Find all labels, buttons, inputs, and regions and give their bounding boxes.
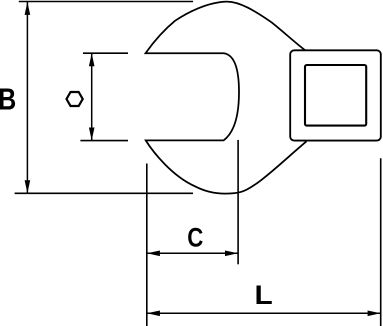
dimension L arrow left	[147, 311, 160, 317]
crowfoot wrench body outline	[146, 2, 307, 194]
dimension C/L left extension line	[146, 164, 148, 326]
svg-text:C: C	[187, 224, 203, 253]
square drive boss (outer)	[290, 50, 381, 140]
dimension C arrow right	[225, 251, 238, 257]
dimension L arrow right	[368, 311, 381, 317]
hex opening arrow down	[89, 128, 95, 141]
dimension B line	[26, 2, 28, 193]
dimension B arrow down	[25, 180, 31, 193]
hexagon symbol (hex size label)	[67, 92, 83, 106]
hex opening top extension line	[83, 52, 128, 54]
svg-text:L: L	[255, 279, 273, 309]
svg-text:B: B	[0, 82, 16, 116]
square drive hole (inner)	[305, 65, 366, 126]
dimension L right extension line	[380, 158, 382, 326]
hex opening arrow up	[89, 53, 95, 66]
dimension B bottom extension line	[15, 192, 193, 194]
hex opening bottom extension line	[80, 140, 128, 142]
dimension C line	[147, 252, 238, 254]
dimension B top extension line	[19, 1, 193, 3]
dimension L line	[147, 312, 381, 314]
dimension C arrow left	[147, 251, 160, 257]
dimension C right extension line	[237, 140, 239, 264]
dimension B arrow up	[25, 2, 31, 15]
hex opening dimension line	[91, 53, 93, 140]
